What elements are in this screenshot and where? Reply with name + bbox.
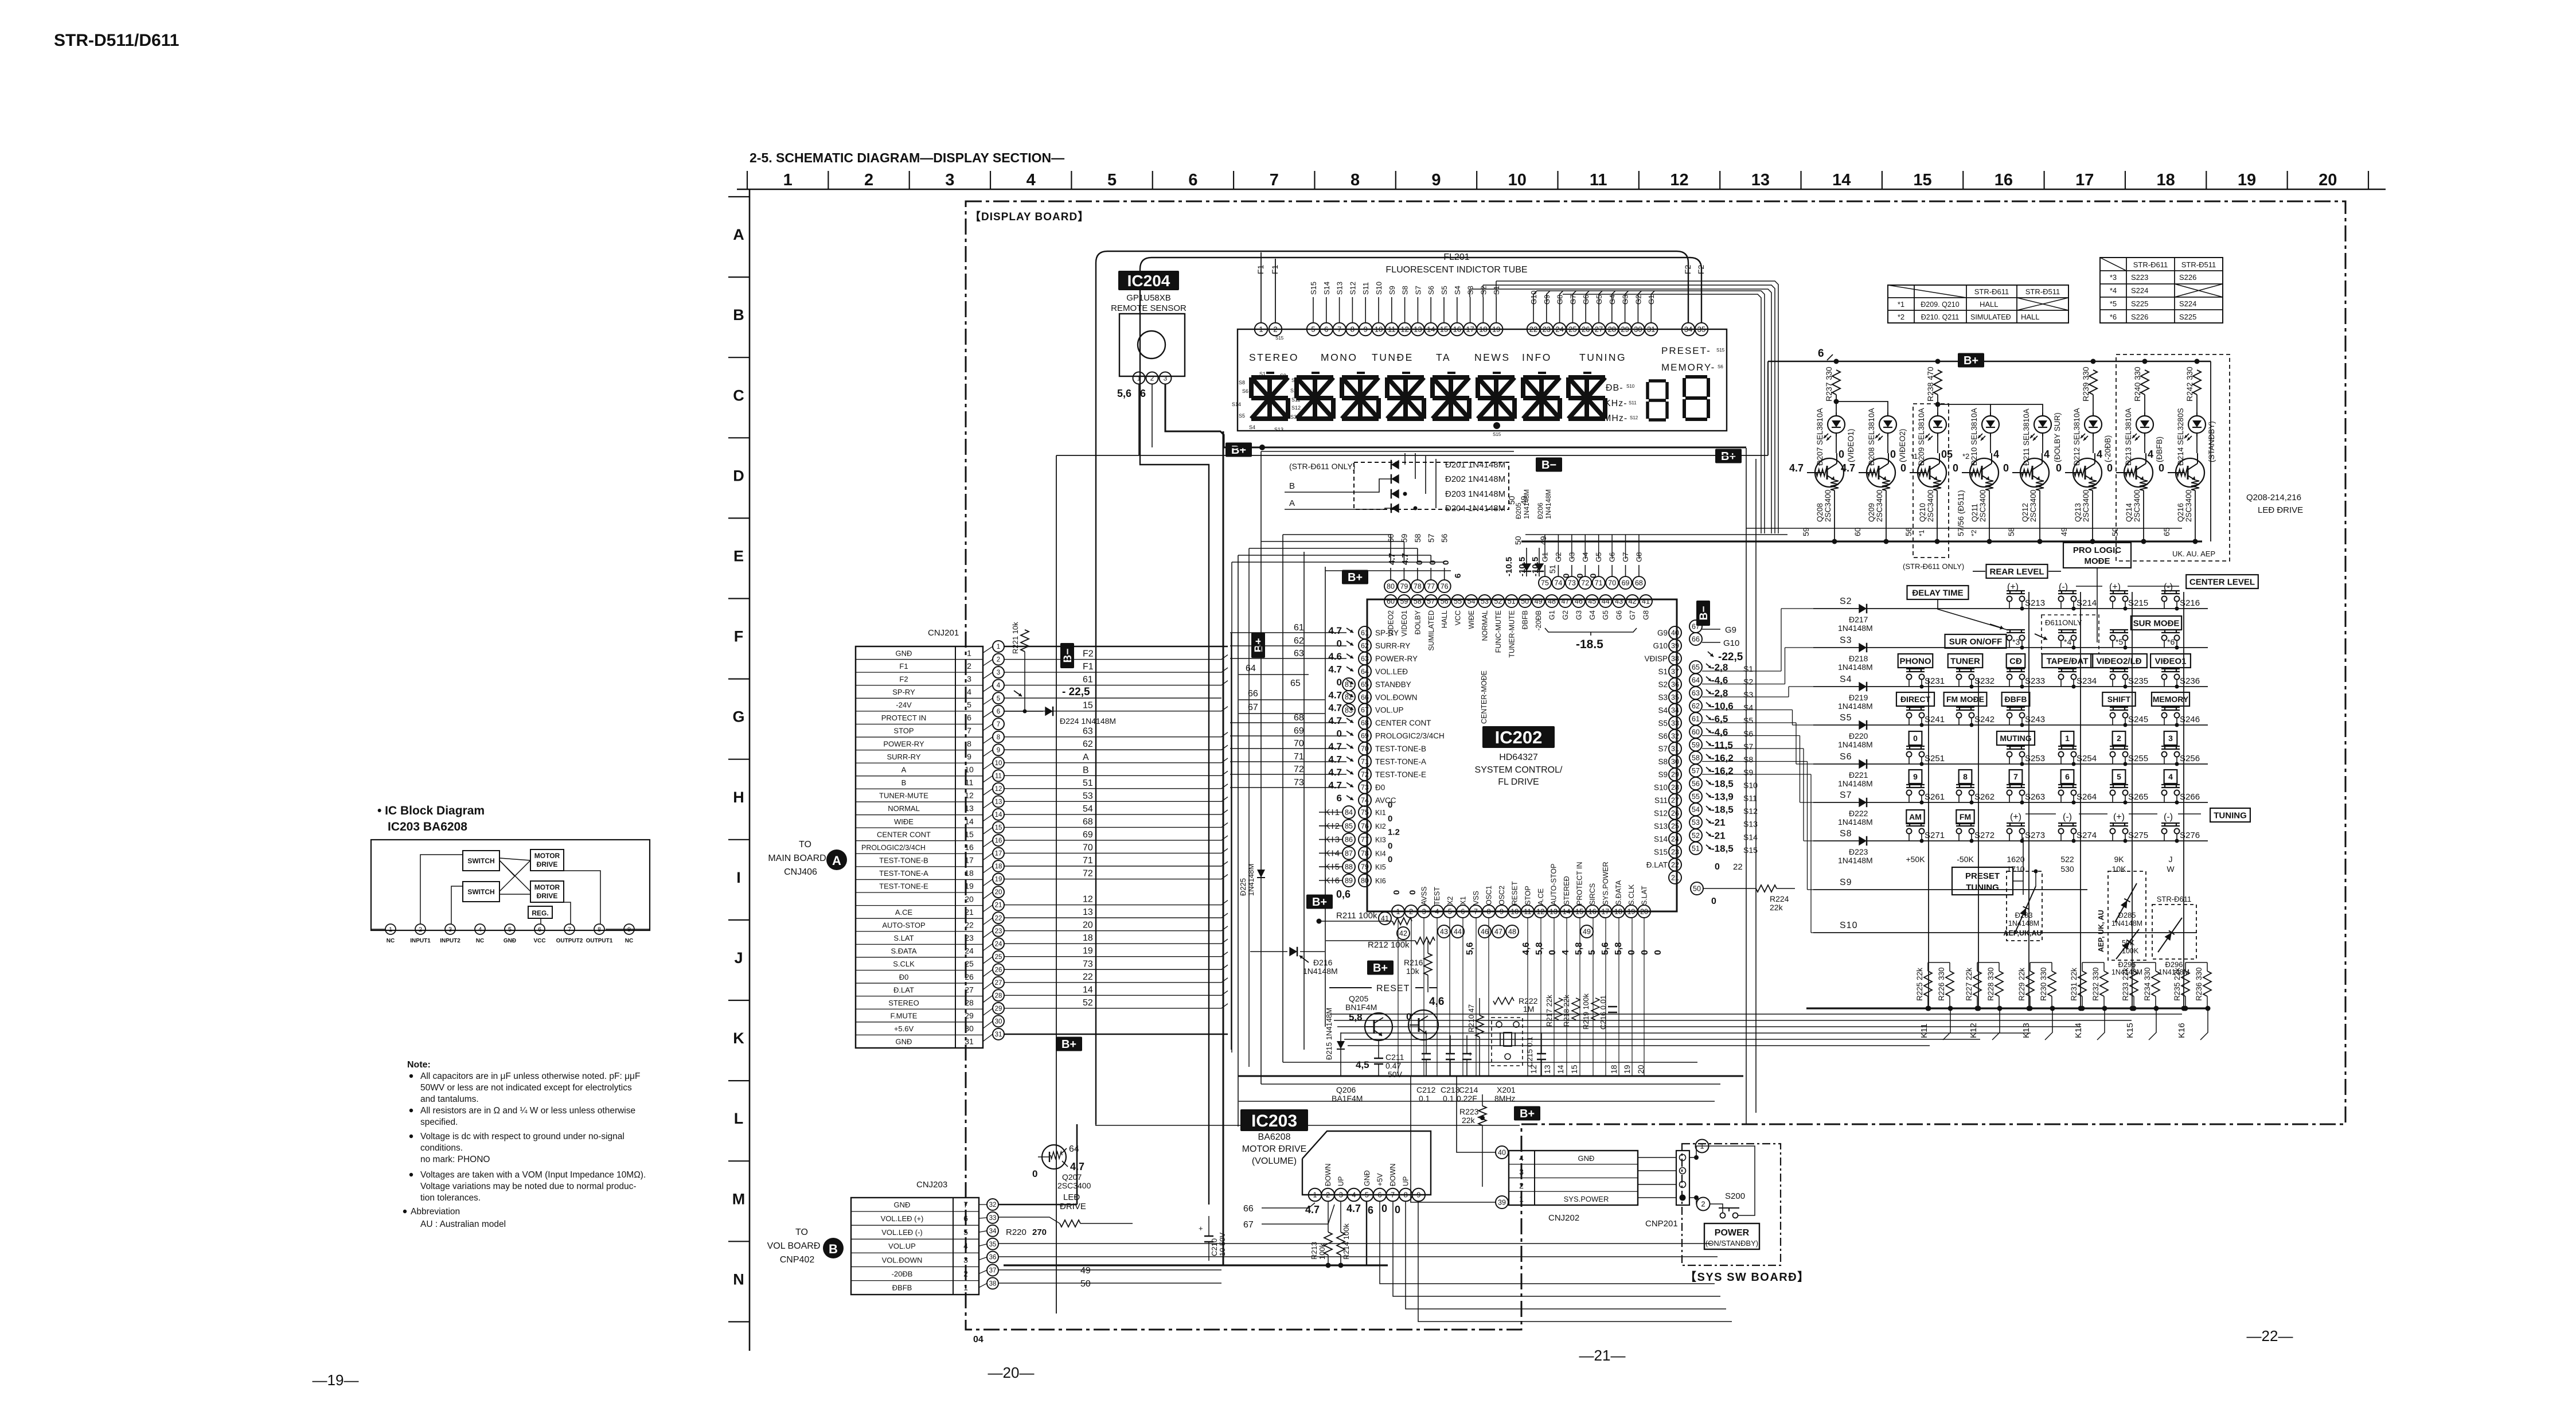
svg-text:45: 45 (1588, 598, 1596, 606)
svg-text:67: 67 (1243, 1220, 1254, 1230)
svg-text:1.2: 1.2 (1388, 828, 1400, 837)
svg-text:43: 43 (1615, 598, 1623, 606)
svg-text:1N4148M: 1N4148M (1838, 856, 1873, 865)
svg-text:S5: S5 (1658, 719, 1668, 727)
brace -18.5 under G pins (1545, 628, 1637, 632)
svg-text:1: 1 (1519, 1194, 1524, 1203)
dashed box D611 only switch (2042, 615, 2099, 654)
svg-text:2: 2 (967, 661, 971, 671)
svg-text:3: 3 (1164, 374, 1168, 382)
svg-text:8: 8 (1351, 325, 1355, 334)
svg-text:3: 3 (1339, 1191, 1343, 1199)
net label B+ near R216 (1367, 961, 1394, 975)
svg-text:VOL.LEĐ (+): VOL.LEĐ (+) (881, 1214, 924, 1223)
svg-text:TUNER-MUTE: TUNER-MUTE (879, 792, 928, 800)
svg-text:STR-Đ611: STR-Đ611 (2133, 260, 2168, 269)
svg-text:S225: S225 (2179, 313, 2196, 321)
svg-text:S10: S10 (1840, 921, 1857, 930)
label RESET (1329, 987, 1372, 988)
svg-text:7: 7 (963, 1200, 968, 1209)
svg-text:20: 20 (965, 894, 974, 903)
switch S276 (2161, 823, 2180, 824)
wire LED feed jogs (1836, 395, 1837, 416)
svg-text:4.7: 4.7 (1328, 625, 1342, 636)
svg-text:Đ211 SEL3810A: Đ211 SEL3810A (2022, 408, 2031, 466)
svg-text:CNJ406: CNJ406 (784, 867, 817, 877)
svg-text:0: 0 (1388, 855, 1392, 864)
svg-text:10K: 10K (2112, 864, 2127, 874)
svg-text:*2: *2 (1962, 452, 1969, 461)
svg-text:TAPE/ĐAT: TAPE/ĐAT (2047, 656, 2089, 666)
svg-text:Q209: Q209 (1867, 503, 1876, 522)
svg-text:STEREO: STEREO (888, 999, 919, 1007)
svg-text:S12: S12 (1654, 809, 1668, 818)
svg-text:18: 18 (995, 863, 1002, 870)
svg-text:G9: G9 (1725, 625, 1736, 635)
svg-text:86: 86 (1345, 836, 1353, 844)
svg-text:30: 30 (1634, 325, 1642, 334)
svg-text:4,5: 4,5 (1356, 1059, 1369, 1070)
IC202 top aux pins 80-76 (1384, 580, 1397, 593)
svg-text:-10.5: -10.5 (1504, 557, 1514, 576)
svg-text:-21: -21 (1711, 817, 1726, 828)
svg-text:S14: S14 (1654, 835, 1668, 844)
svg-text:0: 0 (1388, 800, 1392, 810)
svg-text:SUR ON/OFF: SUR ON/OFF (1949, 637, 2003, 646)
svg-text:51: 51 (1692, 844, 1700, 852)
block SWITCH 1 (463, 851, 499, 871)
svg-text:S1: S1 (1259, 371, 1266, 377)
svg-text:AVSS: AVSS (1420, 887, 1428, 905)
svg-text:73: 73 (1361, 784, 1369, 792)
svg-text:1N4148M: 1N4148M (2111, 919, 2142, 927)
svg-text:0: 0 (1913, 734, 1918, 743)
svg-text:2SC3400: 2SC3400 (2184, 490, 2193, 522)
svg-text:S4: S4 (1840, 675, 1852, 684)
svg-text:S226: S226 (2179, 273, 2196, 282)
wire CNJ202 to CNP201 (1638, 1157, 1676, 1158)
svg-text:S9: S9 (1280, 373, 1286, 379)
switch S234 (2058, 668, 2077, 669)
svg-text:PROLOGIC2/3/4CH: PROLOGIC2/3/4CH (861, 844, 926, 852)
svg-text:4.7: 4.7 (1328, 689, 1342, 700)
svg-text:SURR-RY: SURR-RY (1375, 641, 1410, 650)
net label B- near diode cluster (1536, 458, 1562, 472)
to vol board label (823, 1238, 844, 1258)
svg-text:S5: S5 (1743, 716, 1753, 725)
svg-text:S9: S9 (1840, 878, 1852, 887)
svg-text:3: 3 (448, 926, 452, 933)
svg-text:4: 4 (997, 683, 1001, 689)
svg-text:Đ223: Đ223 (1849, 847, 1868, 856)
FL201 pins 1-2 (1255, 323, 1267, 336)
svg-text:IC202: IC202 (1495, 727, 1543, 747)
svg-text:S262: S262 (1974, 792, 1995, 802)
svg-text:73: 73 (1083, 959, 1093, 969)
svg-text:F1: F1 (1083, 662, 1094, 672)
svg-text:STR-Đ611: STR-Đ611 (1974, 287, 2009, 296)
svg-text:Q208: Q208 (1816, 503, 1824, 522)
diode Đ219 (1859, 682, 1867, 692)
svg-text:22: 22 (1529, 325, 1537, 334)
svg-text:S3: S3 (1658, 693, 1668, 701)
svg-text:S11: S11 (1654, 796, 1668, 805)
svg-text:0.1: 0.1 (1443, 1094, 1454, 1103)
svg-text:F2: F2 (899, 675, 908, 683)
svg-text:AM: AM (1909, 812, 1922, 821)
svg-text:18: 18 (1479, 325, 1487, 334)
svg-text:- 22,5: - 22,5 (1062, 686, 1090, 698)
svg-text:4: 4 (2168, 772, 2173, 781)
svg-text:37: 37 (1671, 668, 1679, 676)
svg-text:38: 38 (989, 1281, 997, 1288)
svg-text:15: 15 (1440, 325, 1448, 334)
svg-text:79: 79 (1400, 583, 1408, 591)
svg-text:51: 51 (1083, 778, 1093, 788)
dashed diode box D283 (2007, 871, 2042, 941)
svg-text:FL201: FL201 (1443, 252, 1469, 262)
svg-text:R212 100k: R212 100k (1368, 940, 1410, 950)
svg-text:69: 69 (1622, 579, 1630, 587)
wire G right-routing rail (1537, 291, 1765, 533)
svg-text:0,6: 0,6 (1336, 888, 1351, 900)
svg-text:TEST-TONE-E: TEST-TONE-E (1375, 770, 1426, 779)
svg-text:0: 0 (1711, 897, 1716, 906)
svg-text:22: 22 (1671, 861, 1679, 869)
svg-text:S.CLK: S.CLK (893, 960, 915, 968)
svg-text:M: M (732, 1190, 746, 1207)
svg-text:11: 11 (1524, 908, 1531, 916)
svg-text:18: 18 (2156, 171, 2175, 189)
svg-text:3: 3 (1422, 908, 1426, 916)
svg-text:2SC3400: 2SC3400 (1824, 490, 1832, 522)
wire S bundle verticals (1781, 609, 1782, 671)
svg-text:69: 69 (1083, 830, 1093, 840)
svg-text:46: 46 (1481, 928, 1489, 936)
svg-text:29: 29 (965, 1011, 974, 1020)
svg-text:8: 8 (997, 734, 1000, 741)
svg-text:1: 1 (967, 648, 971, 657)
svg-text:S4: S4 (1658, 706, 1668, 715)
svg-text:0: 0 (1562, 574, 1571, 578)
svg-text:OSC2: OSC2 (1498, 886, 1506, 905)
svg-text:VOL.ĐOWN: VOL.ĐOWN (882, 1256, 923, 1264)
label POWER ON/STANDBY (1704, 1223, 1759, 1249)
svg-text:9: 9 (997, 747, 1000, 754)
source select labels (1898, 654, 1933, 668)
svg-text:and tantalums.: and tantalums. (420, 1094, 479, 1104)
svg-text:(-20ĐB): (-20ĐB) (2103, 435, 2112, 462)
resistor R239 (2089, 370, 2097, 395)
tube 7-seg digit small (1649, 379, 1666, 383)
svg-text:TEST-TONE-E: TEST-TONE-E (879, 882, 928, 891)
svg-text:S253: S253 (2025, 754, 2045, 763)
svg-text:VOL.UP: VOL.UP (1375, 706, 1404, 715)
svg-text:23: 23 (1671, 848, 1679, 856)
svg-text:TA: TA (1436, 352, 1451, 363)
transistor Q209 2SC3400 (1867, 458, 1895, 487)
svg-text:54: 54 (1083, 804, 1093, 814)
svg-text:S8: S8 (1239, 380, 1245, 385)
svg-text:1: 1 (1396, 908, 1400, 916)
net label B+ above IC202 (1342, 570, 1368, 584)
svg-text:STR-D511/D611: STR-D511/D611 (54, 31, 179, 50)
svg-text:CENTER LEVEL: CENTER LEVEL (2189, 577, 2255, 587)
svg-text:Đ202 1N4148M: Đ202 1N4148M (1445, 474, 1505, 484)
svg-text:0: 0 (1408, 890, 1418, 895)
svg-text:REAR LEVEL: REAR LEVEL (1989, 567, 2044, 576)
svg-text:16: 16 (965, 843, 974, 852)
svg-text:G3: G3 (1621, 295, 1630, 305)
svg-text:S12: S12 (1348, 282, 1357, 295)
switch S3*4 (2058, 629, 2077, 630)
svg-text:-50K: -50K (1957, 855, 1974, 864)
svg-text:TEST-TONE-A: TEST-TONE-A (1375, 758, 1426, 766)
svg-text:CNJ202: CNJ202 (1548, 1213, 1579, 1223)
svg-text:15: 15 (1575, 908, 1583, 916)
svg-text:10k: 10k (1406, 966, 1420, 976)
to main board label (826, 849, 847, 870)
svg-text:53: 53 (1692, 819, 1700, 827)
svg-text:SYSTEM CONTROL/: SYSTEM CONTROL/ (1475, 765, 1563, 775)
transistor Q210 2SC3400 (1918, 458, 1946, 487)
svg-text:5: 5 (997, 695, 1000, 702)
svg-text:Q212: Q212 (2021, 503, 2029, 522)
switch S232 (1956, 668, 1974, 669)
wire K bus (1806, 1007, 2208, 1009)
svg-text:*5: *5 (2116, 637, 2123, 646)
svg-text:S232: S232 (1974, 676, 1995, 686)
svg-text:S15: S15 (1275, 336, 1284, 341)
svg-text:62: 62 (1083, 739, 1093, 749)
svg-text:B: B (1289, 481, 1295, 491)
svg-text:S216: S216 (2180, 598, 2200, 608)
svg-text:B+: B+ (1231, 444, 1246, 457)
svg-text:-18.5: -18.5 (1576, 638, 1603, 651)
svg-text:14: 14 (1563, 908, 1571, 916)
IC202 right aux pins 65-51 (1689, 661, 1702, 673)
svg-text:12: 12 (995, 786, 1002, 793)
svg-text:8: 8 (1404, 1191, 1408, 1199)
svg-text:Đ285: Đ285 (2118, 911, 2136, 919)
svg-text:(+): (+) (2113, 812, 2125, 822)
svg-text:0.47: 0.47 (1385, 1061, 1401, 1070)
svg-text:KI2: KI2 (1375, 823, 1386, 831)
svg-text:24: 24 (965, 946, 974, 956)
svg-text:B: B (829, 1242, 838, 1256)
svg-text:MONO: MONO (1321, 352, 1357, 363)
svg-text:PHONO: PHONO (1899, 656, 1931, 666)
switch S263 (2007, 784, 2025, 785)
svg-text:VOL BOARĐ: VOL BOARĐ (767, 1241, 821, 1251)
svg-text:S7: S7 (1658, 745, 1668, 753)
svg-text:Đ611ONLY: Đ611ONLY (2045, 618, 2082, 627)
svg-text:30: 30 (1671, 758, 1679, 766)
switch S243 (2007, 707, 2025, 708)
label TUNING (2210, 808, 2250, 822)
svg-text:Đ217: Đ217 (1849, 615, 1868, 624)
wire IC203 pin stairs (1380, 1201, 1715, 1284)
svg-text:31: 31 (1647, 325, 1655, 334)
svg-text:SURR-RY: SURR-RY (887, 753, 921, 761)
svg-text:R235 22k: R235 22k (2173, 968, 2181, 1001)
svg-text:S251: S251 (1925, 754, 1945, 763)
svg-text:S2: S2 (1840, 597, 1852, 606)
svg-text:22: 22 (995, 915, 1002, 922)
svg-text:7: 7 (568, 926, 571, 933)
connector CNP201 (1676, 1151, 1689, 1205)
CNJ201 pin circles (993, 641, 1004, 652)
svg-text:TO: TO (795, 1227, 808, 1237)
svg-text:Đ225: Đ225 (1239, 878, 1247, 896)
svg-text:NC: NC (625, 938, 633, 944)
svg-text:13: 13 (965, 804, 974, 813)
svg-text:ĐOWN: ĐOWN (1389, 1163, 1397, 1186)
wire nested loop tops (1261, 451, 1514, 452)
switch S264 (2058, 784, 2077, 785)
svg-text:4.7: 4.7 (1400, 553, 1410, 565)
svg-text:12: 12 (965, 791, 974, 800)
dashed box UK AU AEP (2116, 354, 2230, 561)
svg-text:61: 61 (1294, 623, 1304, 633)
label SUR ON/OFF (1945, 634, 2007, 648)
svg-text:Q210: Q210 (1918, 503, 1927, 522)
svg-text:9K: 9K (2114, 855, 2124, 864)
svg-text:0: 0 (1441, 560, 1451, 565)
svg-text:A: A (1083, 753, 1089, 762)
resistor pair R235 R236 (2181, 971, 2189, 996)
svg-text:R216: R216 (1404, 958, 1423, 967)
svg-text:2: 2 (1326, 1191, 1330, 1199)
svg-text:2: 2 (997, 657, 1000, 664)
svg-text:(-): (-) (2164, 812, 2173, 822)
svg-text:G2: G2 (1562, 610, 1570, 620)
svg-text:15: 15 (1913, 171, 1931, 189)
svg-text:29: 29 (1621, 325, 1629, 334)
svg-text:H: H (733, 789, 744, 806)
svg-text:—19—: —19— (313, 1371, 359, 1389)
svg-text:0: 0 (1890, 449, 1896, 460)
svg-text:68: 68 (1083, 817, 1093, 827)
svg-text:0: 0 (1415, 560, 1424, 565)
svg-text:KI6: KI6 (1375, 877, 1386, 885)
svg-text:*2: *2 (1970, 529, 1978, 536)
svg-text:1N4148M: 1N4148M (1303, 966, 1338, 976)
svg-text:S10: S10 (1654, 784, 1668, 792)
svg-text:1N4148M: 1N4148M (1838, 779, 1873, 788)
svg-text:62: 62 (1692, 702, 1700, 710)
svg-text:F2: F2 (1083, 649, 1094, 659)
svg-text:POWER-RY: POWER-RY (1375, 654, 1418, 663)
svg-text:9: 9 (1500, 908, 1504, 916)
svg-text:+: + (1468, 1050, 1473, 1058)
svg-text:39: 39 (1671, 642, 1679, 650)
svg-text:6: 6 (1453, 574, 1463, 578)
diode D204 (1391, 504, 1399, 513)
svg-text:-18,5: -18,5 (1711, 843, 1734, 854)
svg-text:8: 8 (1351, 171, 1360, 189)
svg-text:N: N (733, 1270, 744, 1288)
svg-text:PROTECT IN: PROTECT IN (1576, 862, 1584, 905)
svg-text:51: 51 (1508, 598, 1516, 606)
svg-text:5,6: 5,6 (1465, 942, 1475, 955)
svg-text:MAIN BOARD: MAIN BOARD (768, 853, 826, 863)
svg-text:44: 44 (1454, 928, 1462, 936)
svg-text:S3: S3 (1290, 414, 1297, 420)
svg-text:R229 22k: R229 22k (2017, 968, 2026, 1001)
svg-text:4: 4 (1519, 1153, 1524, 1163)
svg-text:4.6: 4.6 (1328, 651, 1342, 662)
svg-text:30: 30 (995, 1019, 1002, 1026)
svg-text:0: 0 (1392, 890, 1402, 895)
LED Đ212 (2085, 416, 2102, 433)
tube 14-seg digit 5 (1433, 375, 1469, 380)
svg-text:GNĐ: GNĐ (504, 938, 516, 944)
svg-text:Voltage variations may be note: Voltage variations may be noted due to n… (420, 1182, 637, 1191)
grid row ruler (728, 189, 750, 1351)
svg-text:C215 0.1: C215 0.1 (1525, 1036, 1534, 1067)
svg-text:1N4148M: 1N4148M (1838, 740, 1873, 749)
svg-text:FM MOĐE: FM MOĐE (1946, 695, 1984, 704)
svg-text:Abbreviation: Abbreviation (411, 1207, 460, 1217)
svg-text:WIĐE: WIĐE (1467, 610, 1476, 629)
resistor R214 100k (1337, 1232, 1345, 1255)
svg-text:6: 6 (538, 926, 541, 933)
svg-text:8: 8 (1487, 908, 1491, 916)
svg-text:K13: K13 (2021, 1023, 2031, 1038)
grid column ruler (737, 171, 2386, 189)
svg-text:S7: S7 (1743, 742, 1753, 751)
switch S233 (2007, 668, 2025, 669)
svg-text:HD64327: HD64327 (1499, 753, 1538, 762)
svg-text:65: 65 (1692, 664, 1700, 672)
svg-text:23: 23 (1543, 325, 1551, 334)
tube 7-seg digit large (1685, 375, 1707, 379)
svg-text:Đ210 SEL3810A: Đ210 SEL3810A (1970, 408, 1978, 466)
svg-text:31: 31 (965, 1037, 974, 1046)
svg-text:VIĐEO1: VIĐEO1 (2155, 656, 2186, 666)
transistor Q212 2SC3400 (2020, 458, 2049, 487)
svg-text:BA1F4M: BA1F4M (1332, 1094, 1363, 1103)
label DELAY TIME (1907, 586, 1969, 599)
svg-text:51: 51 (1548, 564, 1557, 574)
svg-text:MOTOR: MOTOR (534, 883, 560, 891)
net label B+ mid channel (1306, 895, 1333, 909)
svg-text:68: 68 (1294, 713, 1304, 723)
switch S214 (2058, 590, 2077, 591)
svg-text:S11: S11 (1743, 794, 1757, 803)
tube decimal point (1493, 422, 1500, 429)
svg-text:Đ296: Đ296 (2165, 960, 2183, 969)
svg-text:0: 0 (1337, 677, 1342, 688)
svg-text:S214: S214 (2077, 598, 2097, 608)
svg-text:G1: G1 (1647, 295, 1656, 305)
label PRO LOGIC MODE (2063, 543, 2131, 568)
svg-text:Q208-214,216: Q208-214,216 (2246, 493, 2301, 502)
switch S266 (2161, 784, 2180, 785)
switch S261 (1906, 784, 1925, 785)
svg-text:11: 11 (995, 773, 1002, 779)
svg-text:4.7: 4.7 (1346, 1203, 1361, 1214)
diode Đ217 (1859, 604, 1867, 614)
switch S216 (2161, 590, 2180, 591)
svg-text:9: 9 (1364, 325, 1368, 334)
svg-text:S264: S264 (2077, 792, 2097, 802)
svg-text:(-): (-) (2063, 812, 2072, 822)
diode Đ221 (1859, 759, 1867, 769)
block diagram crossing wires (499, 858, 530, 860)
svg-text:ĐOWN: ĐOWN (1324, 1163, 1332, 1186)
